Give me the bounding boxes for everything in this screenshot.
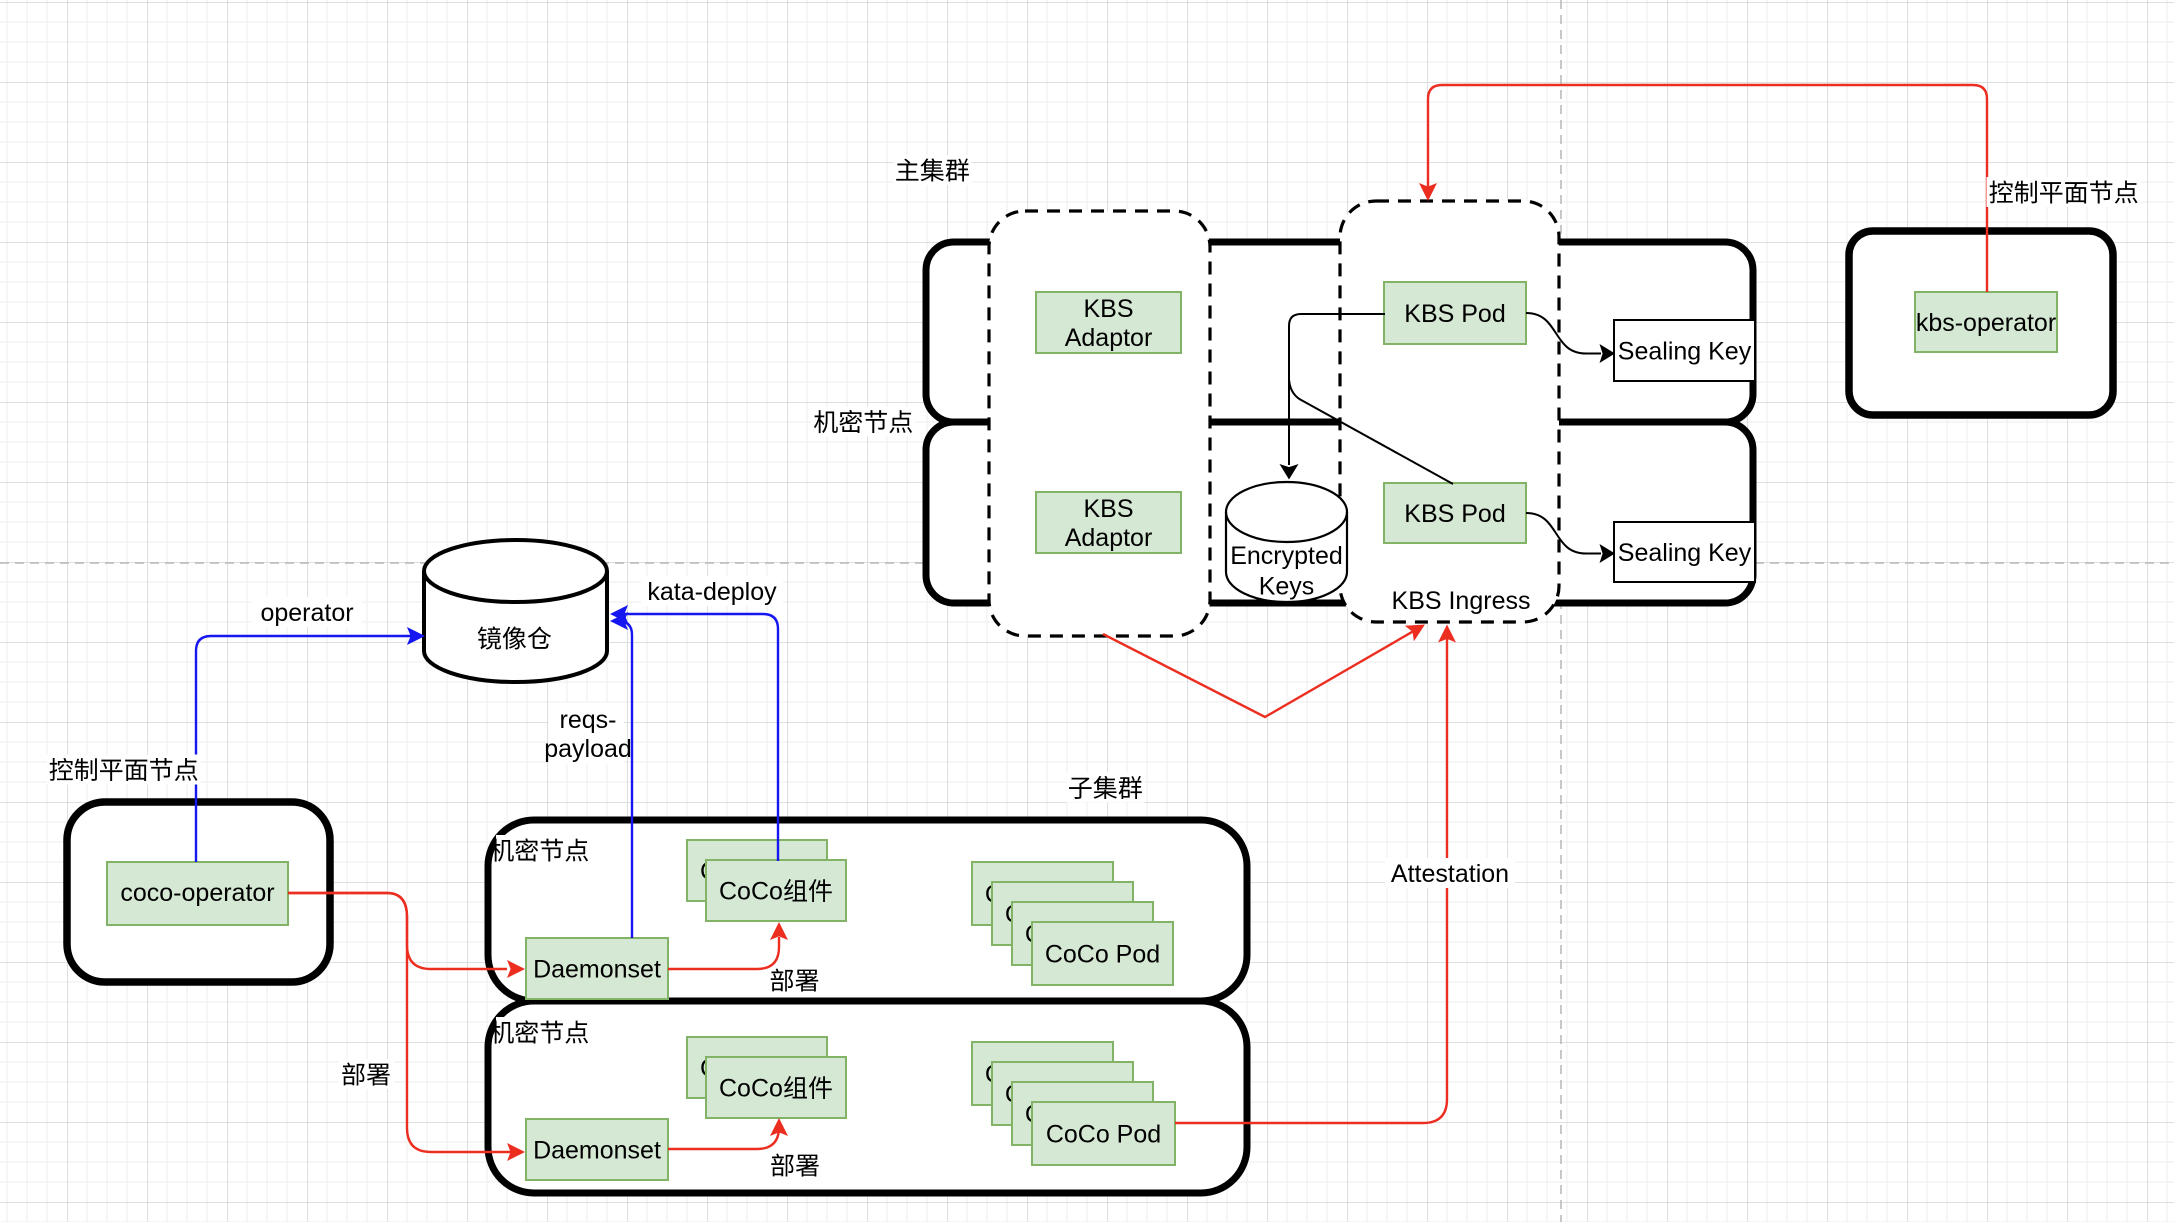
svg-text:coco-operator: coco-operator bbox=[120, 879, 274, 907]
svg-text:Daemonset: Daemonset bbox=[533, 955, 661, 983]
svg-text:KBS Ingress: KBS Ingress bbox=[1392, 587, 1531, 615]
svg-text:KBS Pod: KBS Pod bbox=[1404, 300, 1505, 328]
svg-text:KBS: KBS bbox=[1083, 295, 1133, 323]
svg-text:CoCo Pod: CoCo Pod bbox=[1045, 940, 1160, 968]
svg-text:KBS Pod: KBS Pod bbox=[1404, 500, 1505, 528]
svg-text:Adaptor: Adaptor bbox=[1065, 524, 1153, 552]
svg-text:Daemonset: Daemonset bbox=[533, 1136, 661, 1164]
svg-text:Keys: Keys bbox=[1259, 572, 1315, 600]
svg-text:CoCo: CoCo bbox=[719, 877, 783, 905]
svg-text:KBS: KBS bbox=[1083, 495, 1133, 523]
svg-text:kbs-operator: kbs-operator bbox=[1916, 309, 2056, 337]
svg-text:operator: operator bbox=[260, 599, 353, 627]
svg-text:Sealing Key: Sealing Key bbox=[1618, 337, 1752, 365]
svg-text:CoCo: CoCo bbox=[719, 1074, 783, 1102]
svg-text:Attestation: Attestation bbox=[1391, 860, 1509, 888]
svg-text:reqs-: reqs- bbox=[560, 706, 617, 734]
svg-text:CoCo Pod: CoCo Pod bbox=[1046, 1120, 1161, 1148]
svg-text:Sealing Key: Sealing Key bbox=[1618, 539, 1752, 567]
svg-text:payload: payload bbox=[544, 735, 632, 763]
svg-text:kata-deploy: kata-deploy bbox=[647, 578, 777, 606]
svg-text:Encrypted: Encrypted bbox=[1230, 542, 1343, 570]
svg-text:Adaptor: Adaptor bbox=[1065, 324, 1153, 352]
